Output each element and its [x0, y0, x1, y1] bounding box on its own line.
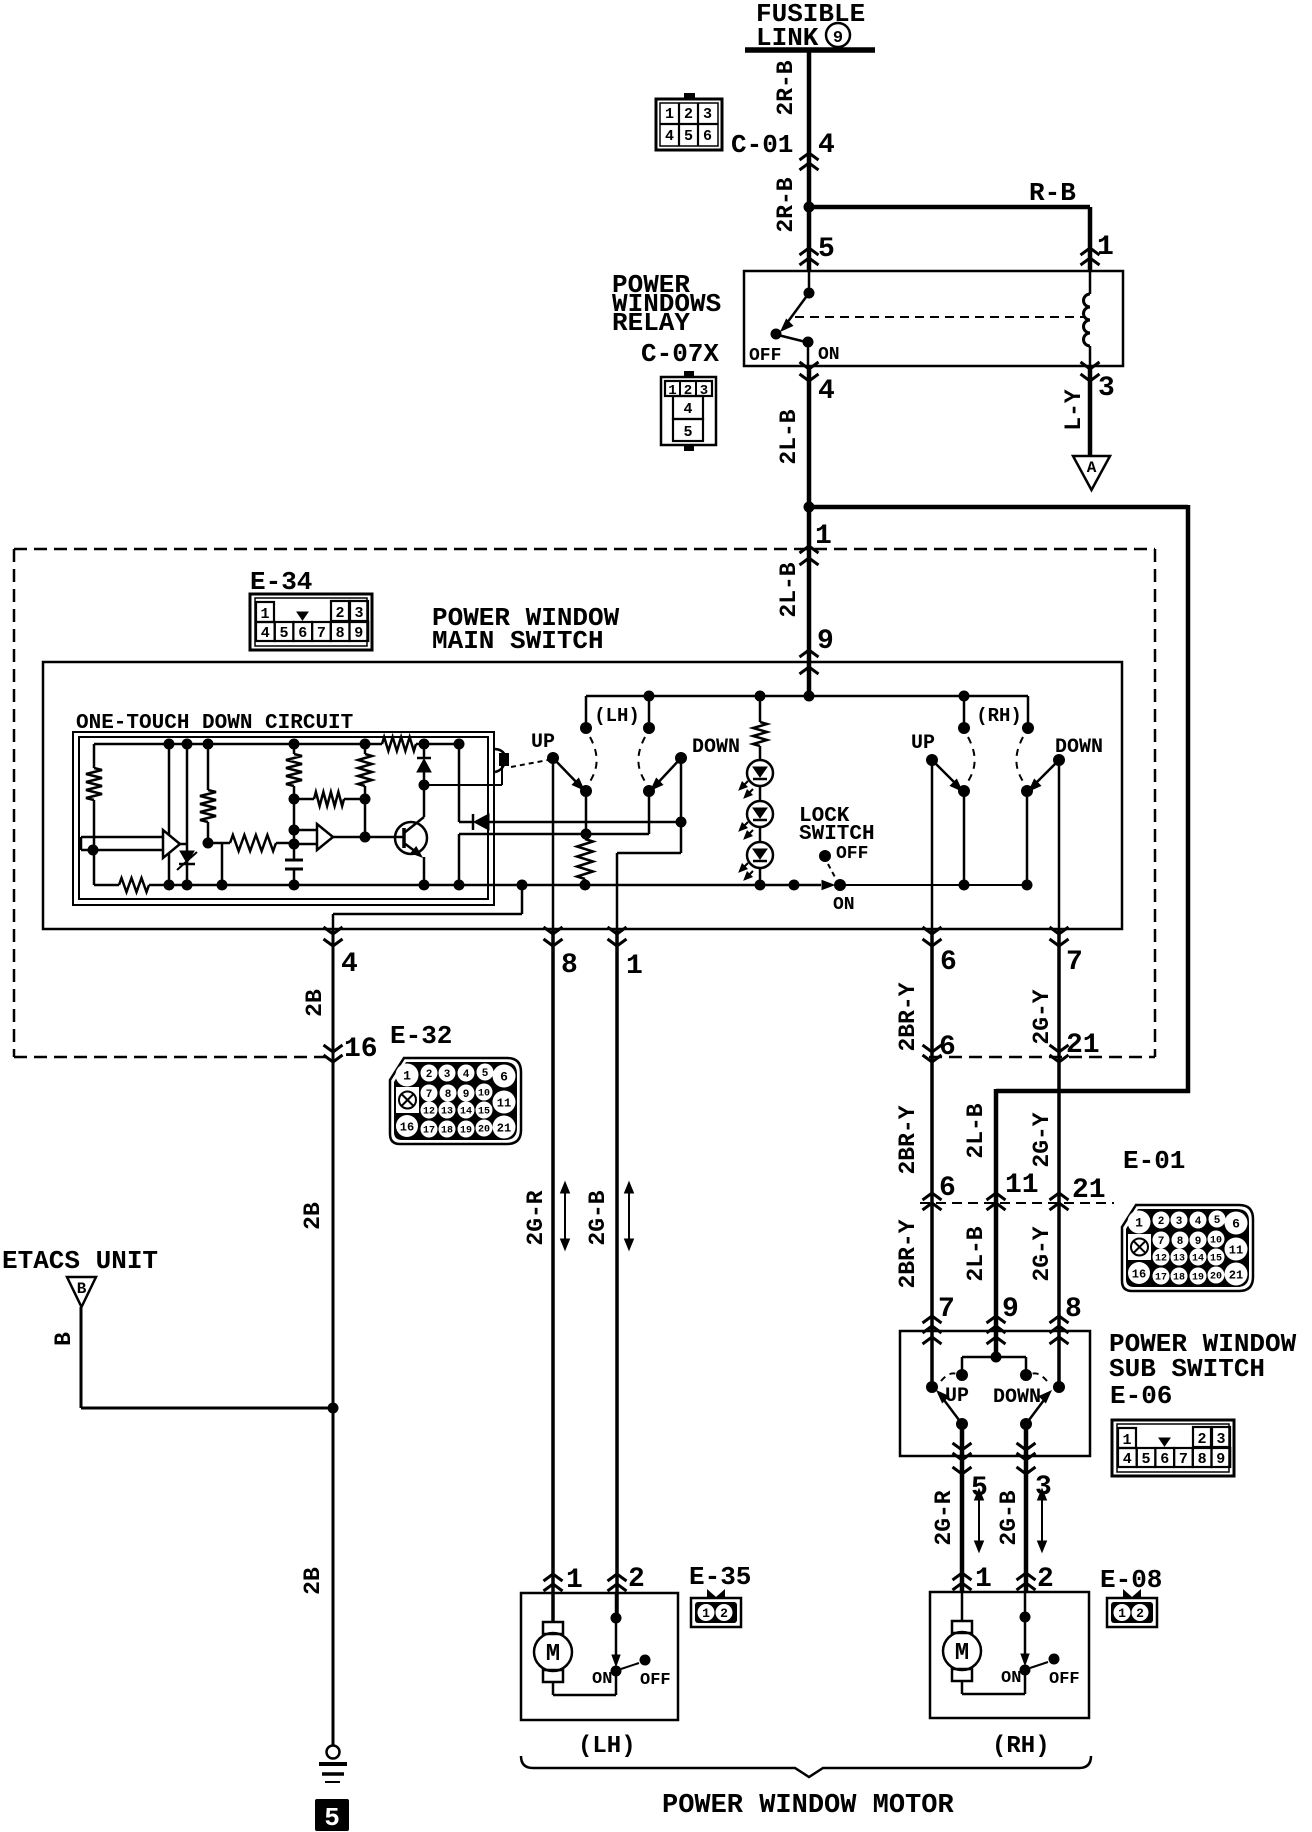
LED chain resistor: [753, 722, 767, 746]
svg-text:5: 5: [279, 625, 288, 642]
svg-text:DOWN: DOWN: [692, 736, 740, 759]
motor RH M symbol: [952, 1621, 972, 1633]
svg-text:1: 1: [1122, 1432, 1131, 1449]
capacitor: [293, 844, 296, 860]
svg-text:5: 5: [1141, 1451, 1150, 1468]
brace power window motor: [521, 1756, 1091, 1777]
pin 1 of RH motor: [953, 1573, 972, 1580]
svg-text:16: 16: [344, 1034, 378, 1065]
svg-text:5: 5: [683, 424, 692, 441]
one-touch down circuit box: [73, 732, 494, 905]
arrow 2G-B RH: [1041, 1499, 1043, 1542]
lock switch arm: [828, 864, 836, 879]
svg-text:1: 1: [975, 1564, 992, 1595]
pin 4 internal ground link: [332, 914, 335, 929]
svg-text:1: 1: [702, 1606, 710, 1621]
svg-text:11: 11: [497, 1096, 511, 1110]
op-amp 1: [163, 830, 180, 858]
zener diode: [180, 851, 194, 863]
svg-text:12: 12: [423, 1107, 435, 1118]
svg-text:11: 11: [1005, 1170, 1039, 1201]
svg-text:17: 17: [1155, 1273, 1167, 1284]
junction node R-B: [804, 202, 815, 213]
svg-text:1: 1: [566, 1565, 583, 1596]
svg-text:A: A: [1087, 459, 1097, 477]
svg-text:19: 19: [1192, 1273, 1204, 1284]
svg-text:UP: UP: [911, 732, 935, 755]
RH DOWN switch: [1053, 754, 1065, 766]
svg-text:4: 4: [683, 401, 692, 418]
svg-text:15: 15: [478, 1107, 490, 1118]
sub switch UP linkage arc: [941, 1373, 961, 1381]
sub switch box: [900, 1331, 1090, 1456]
svg-text:2G-Y: 2G-Y: [1029, 1226, 1055, 1281]
wire 2L-B relay to main switch: [807, 366, 812, 696]
svg-text:13: 13: [441, 1107, 453, 1118]
wire 2G-Y main to sub: [1057, 929, 1061, 1387]
svg-text:21: 21: [1229, 1268, 1243, 1282]
svg-text:2: 2: [1197, 1431, 1206, 1448]
svg-text:7: 7: [1179, 1451, 1188, 1468]
LH DOWN switch: [675, 752, 687, 764]
svg-text:12: 12: [1155, 1254, 1167, 1265]
wire 2R-B from fusible link: [807, 50, 812, 271]
svg-text:21: 21: [1066, 1030, 1100, 1061]
svg-text:9: 9: [1216, 1451, 1225, 1468]
svg-text:2L-B: 2L-B: [776, 409, 802, 464]
svg-text:5: 5: [1214, 1215, 1221, 1227]
wire 2B to ground: [332, 929, 335, 1746]
svg-text:5: 5: [482, 1068, 489, 1080]
svg-text:E-32: E-32: [390, 1021, 452, 1051]
svg-text:E-35: E-35: [689, 1562, 751, 1592]
wire one-touch collector node: [458, 744, 461, 822]
svg-text:2R-B: 2R-B: [773, 177, 799, 232]
RH UP switch: [926, 754, 938, 766]
svg-text:2G-B: 2G-B: [585, 1190, 611, 1245]
wire vertical 2 with zener: [186, 744, 189, 885]
svg-text:4: 4: [261, 625, 270, 642]
resistor 2: [207, 744, 210, 790]
svg-text:MAIN SWITCH: MAIN SWITCH: [432, 626, 604, 656]
svg-text:(LH): (LH): [578, 1733, 636, 1760]
pin 3 of relay output: [1081, 362, 1100, 369]
RH switch top stubs: [963, 696, 966, 727]
motor LH M symbol: [543, 1622, 563, 1634]
svg-text:OFF: OFF: [836, 844, 868, 864]
svg-text:2B: 2B: [300, 1202, 326, 1230]
wire ETACS to ground wire: [80, 1307, 83, 1408]
svg-text:8: 8: [561, 950, 578, 981]
wire L-Y to A: [1088, 366, 1093, 456]
svg-text:2: 2: [1136, 1606, 1144, 1621]
svg-text:2: 2: [1158, 1216, 1165, 1228]
svg-text:6: 6: [939, 1032, 956, 1063]
svg-text:2: 2: [1037, 1564, 1054, 1595]
wire sub switch to RH motor 1: [960, 1424, 965, 1593]
svg-text:8: 8: [445, 1089, 452, 1101]
svg-text:6: 6: [1232, 1217, 1240, 1232]
motor LH internal wiring: [552, 1593, 555, 1622]
svg-text:1: 1: [1118, 1606, 1126, 1621]
svg-text:9: 9: [817, 626, 834, 657]
ground reference 5 marker: [315, 1799, 349, 1831]
svg-text:7: 7: [426, 1089, 433, 1101]
svg-text:5: 5: [818, 234, 835, 265]
resistor 6 vertical: [358, 754, 372, 786]
pin 4 of relay output: [800, 362, 819, 369]
wire LH UP common to pin 8: [552, 758, 555, 929]
wire sub switch to RH motor 2: [1024, 1424, 1029, 1593]
pin 7 of main switch: [1050, 927, 1069, 934]
pin 2 of RH motor: [1017, 1573, 1036, 1580]
svg-text:ON: ON: [818, 345, 840, 365]
ground symbol: [327, 1746, 340, 1759]
svg-text:16: 16: [400, 1120, 414, 1134]
wire LH DOWN contact down: [648, 791, 651, 834]
wire to bottom rail: [221, 843, 224, 885]
svg-text:16: 16: [1132, 1267, 1146, 1281]
svg-text:3: 3: [1216, 1431, 1225, 1448]
svg-text:2R-B: 2R-B: [773, 60, 799, 115]
svg-text:14: 14: [460, 1107, 472, 1118]
svg-text:2G-B: 2G-B: [996, 1490, 1022, 1545]
resistor 3 horizontal: [208, 842, 230, 845]
svg-text:2L-B: 2L-B: [963, 1103, 989, 1158]
sub switch UP arm: [941, 1396, 962, 1424]
svg-text:ON: ON: [592, 1670, 612, 1689]
svg-text:(LH): (LH): [594, 705, 640, 727]
pin 4 of main switch: [324, 927, 343, 934]
svg-text:1: 1: [665, 106, 674, 123]
svg-text:9: 9: [833, 29, 843, 48]
svg-text:SUB SWITCH: SUB SWITCH: [1109, 1354, 1265, 1384]
svg-text:6: 6: [1160, 1451, 1169, 1468]
svg-text:2BR-Y: 2BR-Y: [895, 1105, 921, 1174]
svg-text:2: 2: [628, 1564, 645, 1595]
svg-text:DOWN: DOWN: [993, 1386, 1041, 1409]
svg-text:2: 2: [426, 1069, 433, 1081]
svg-text:M: M: [955, 1640, 969, 1667]
svg-text:7: 7: [1066, 947, 1083, 978]
pin 3 of sub switch: [1017, 1443, 1036, 1450]
svg-text:1: 1: [1135, 1216, 1143, 1231]
svg-text:8: 8: [336, 625, 345, 642]
svg-text:2BR-Y: 2BR-Y: [895, 982, 921, 1051]
LH switch top stubs: [585, 696, 588, 727]
wire main switch pin 8 to LH motor: [551, 929, 555, 1622]
svg-text:3: 3: [1176, 1216, 1183, 1228]
svg-text:E-06: E-06: [1110, 1381, 1172, 1411]
arrow 2G-R RH: [978, 1499, 980, 1542]
sub switch DOWN linkage arc: [1027, 1373, 1047, 1381]
svg-text:POWER WINDOW MOTOR: POWER WINDOW MOTOR: [662, 1791, 954, 1821]
main switch assembly dashed boundary: [14, 548, 1155, 551]
pin 1 of LH motor: [544, 1574, 563, 1581]
pin 1 of main switch: [608, 927, 627, 934]
wire R-B branch: [809, 205, 1090, 210]
svg-text:C-07X: C-07X: [641, 339, 719, 369]
LH UP switch: [547, 752, 559, 764]
power window motor LH box: [521, 1593, 678, 1720]
LH DOWN linkage arc: [638, 737, 646, 783]
relay switch contact: [808, 271, 811, 293]
sub switch feed node: [991, 1352, 1002, 1363]
svg-text:C-01: C-01: [731, 130, 793, 160]
diode 2 to pin1 line: [459, 821, 473, 824]
svg-text:5: 5: [324, 1803, 340, 1832]
svg-text:13: 13: [1173, 1254, 1185, 1265]
wire main switch pin 1 to LH motor: [615, 929, 619, 1618]
transistor Q1: [395, 822, 427, 854]
svg-text:(RH): (RH): [992, 1733, 1050, 1760]
diode 1: [423, 744, 426, 758]
motor LH breaker switch: [615, 1593, 618, 1664]
wire RH DOWN contact down: [1026, 791, 1029, 885]
svg-text:ETACS UNIT: ETACS UNIT: [2, 1246, 158, 1276]
svg-text:18: 18: [1173, 1273, 1185, 1284]
arrow 2G-B LH: [628, 1192, 630, 1240]
connector E-01 dashed line: [920, 1202, 1114, 1204]
svg-text:9: 9: [463, 1089, 470, 1101]
connector E-01 icon: [1122, 1205, 1253, 1291]
svg-text:M: M: [546, 1641, 560, 1668]
svg-text:OFF: OFF: [1049, 1670, 1080, 1689]
svg-text:6: 6: [940, 947, 957, 978]
pin 2 of LH motor: [608, 1574, 627, 1581]
svg-text:L-Y: L-Y: [1061, 389, 1087, 431]
svg-text:5: 5: [684, 128, 693, 145]
svg-text:UP: UP: [531, 731, 555, 754]
motor RH breaker switch: [1024, 1592, 1027, 1663]
LED chain wire: [759, 696, 762, 722]
svg-text:SWITCH: SWITCH: [799, 823, 875, 846]
svg-text:9: 9: [354, 625, 363, 642]
junction node 2L-B: [804, 502, 815, 513]
wire RH UP common to pin 6: [931, 760, 934, 929]
svg-text:20: 20: [478, 1125, 490, 1136]
wire RH UP contact down: [963, 791, 966, 885]
LED 3: [759, 827, 762, 842]
svg-text:17: 17: [423, 1126, 435, 1137]
svg-text:2G-R: 2G-R: [931, 1490, 957, 1545]
svg-text:7: 7: [317, 625, 326, 642]
svg-text:2: 2: [720, 1606, 728, 1621]
pin 8 of main switch: [544, 927, 563, 934]
svg-text:E-08: E-08: [1100, 1565, 1162, 1595]
resistor 5 horizontal: [314, 792, 344, 806]
svg-text:3: 3: [703, 106, 712, 123]
rail junction dot: [789, 880, 800, 891]
svg-text:2B: 2B: [302, 989, 328, 1017]
svg-text:1: 1: [403, 1069, 411, 1084]
LED 1: [747, 760, 773, 786]
line to LH down node: [459, 833, 649, 836]
lock switch OFF: [819, 850, 831, 862]
svg-text:20: 20: [1210, 1272, 1222, 1283]
resistor LH: [577, 839, 593, 879]
dashed link to UP switch: [511, 760, 548, 767]
power window main switch box: [43, 662, 1122, 929]
LED 2: [759, 786, 762, 801]
svg-text:B: B: [51, 1332, 77, 1346]
wire LH UP contact down: [585, 791, 588, 834]
connector E-08 icon: [1123, 1589, 1132, 1597]
fusible link bus bar: [745, 47, 875, 53]
svg-text:2L-B: 2L-B: [963, 1226, 989, 1281]
RH UP linkage arc: [967, 737, 975, 783]
svg-text:ON: ON: [833, 895, 855, 915]
connector C-07X icon: [661, 377, 716, 445]
svg-text:6: 6: [500, 1070, 508, 1085]
connector E-32 icon: [390, 1058, 521, 1144]
svg-text:4: 4: [341, 949, 358, 980]
wire vertical 1: [168, 744, 171, 885]
svg-text:10: 10: [1210, 1236, 1222, 1247]
lock switch ON node: [822, 881, 834, 890]
wire RH DOWN common to pin 7: [1058, 760, 1061, 929]
one-touch top rail: [94, 743, 382, 746]
svg-text:2: 2: [335, 605, 344, 622]
resistor left: [93, 744, 96, 768]
svg-text:21: 21: [1072, 1175, 1106, 1206]
svg-text:6: 6: [298, 625, 307, 642]
pin 5 of sub switch: [953, 1443, 972, 1450]
sub switch DOWN contact: [1053, 1381, 1065, 1393]
power window motor RH box: [930, 1592, 1089, 1718]
svg-text:(RH): (RH): [976, 705, 1022, 727]
svg-text:4: 4: [463, 1069, 470, 1081]
op-amp 2: [317, 824, 333, 850]
svg-text:10: 10: [478, 1089, 490, 1100]
wire LH DOWN common to pin 1: [680, 758, 683, 822]
LH UP linkage arc: [589, 737, 597, 783]
svg-text:RELAY: RELAY: [612, 308, 690, 338]
svg-text:2G-Y: 2G-Y: [1029, 1112, 1055, 1167]
svg-text:E-01: E-01: [1123, 1146, 1185, 1176]
svg-text:8: 8: [1065, 1294, 1082, 1325]
svg-text:2L-B: 2L-B: [776, 562, 802, 617]
svg-text:2BR-Y: 2BR-Y: [895, 1219, 921, 1288]
svg-text:ON: ON: [1001, 1669, 1021, 1688]
connector E-35 icon: [707, 1589, 716, 1597]
resistor 4 vertical: [286, 754, 302, 786]
svg-text:15: 15: [1210, 1254, 1222, 1265]
svg-text:8: 8: [1198, 1451, 1207, 1468]
svg-text:2B: 2B: [300, 1567, 326, 1595]
svg-text:R-B: R-B: [1029, 178, 1076, 208]
svg-text:9: 9: [1002, 1294, 1019, 1325]
connector C-01 icon: [656, 99, 722, 150]
svg-text:1: 1: [626, 951, 643, 982]
svg-text:4: 4: [818, 130, 835, 161]
triangle connector A: [1073, 456, 1110, 490]
main switch ground rail right: [840, 884, 1027, 886]
relay linkage dashed line: [795, 316, 1085, 318]
svg-text:OFF: OFF: [640, 1671, 671, 1690]
svg-text:2G-R: 2G-R: [523, 1190, 549, 1245]
svg-text:4: 4: [1123, 1451, 1132, 1468]
svg-text:4: 4: [818, 376, 835, 407]
svg-text:UP: UP: [945, 1385, 969, 1408]
ETACS triangle B: [67, 1277, 96, 1307]
RH DOWN linkage arc: [1016, 737, 1024, 783]
one-touch output to terminal: [424, 784, 502, 786]
svg-text:11: 11: [1229, 1243, 1243, 1257]
motor RH internal wiring: [961, 1592, 964, 1621]
svg-text:19: 19: [460, 1126, 472, 1137]
connector E-34 icon: [250, 594, 372, 650]
svg-text:1: 1: [260, 606, 269, 623]
svg-text:3: 3: [354, 605, 363, 622]
relay coil: [1089, 271, 1092, 294]
one-touch bottom rail: [94, 884, 119, 887]
svg-text:7: 7: [938, 1294, 955, 1325]
svg-text:2G-Y: 2G-Y: [1029, 989, 1055, 1044]
svg-text:7: 7: [1158, 1236, 1165, 1248]
sub switch DOWN arm: [1026, 1396, 1047, 1424]
svg-text:21: 21: [497, 1121, 511, 1135]
svg-text:B: B: [77, 1280, 87, 1298]
svg-text:6: 6: [703, 128, 712, 145]
svg-text:2: 2: [684, 106, 693, 123]
connector E-06 icon: [1112, 1420, 1234, 1476]
svg-text:8: 8: [1177, 1236, 1184, 1248]
wire 2BR-Y main to sub: [930, 929, 934, 1387]
relay C-07X box: [744, 271, 1123, 366]
main switch top bus: [586, 695, 1028, 698]
svg-text:14: 14: [1192, 1254, 1204, 1265]
sub switch UP contact: [926, 1381, 938, 1393]
svg-text:4: 4: [665, 128, 674, 145]
svg-text:4: 4: [1195, 1216, 1202, 1228]
svg-text:18: 18: [441, 1126, 453, 1137]
svg-text:3: 3: [1098, 373, 1115, 404]
arrow 2G-R LH: [564, 1192, 566, 1240]
svg-text:9: 9: [1195, 1236, 1202, 1248]
svg-text:3: 3: [444, 1069, 451, 1081]
svg-text:OFF: OFF: [749, 346, 781, 366]
svg-text:1: 1: [815, 521, 832, 552]
pin 6 of main switch: [923, 927, 942, 934]
wire 2L-B to sub switch: [809, 505, 1188, 510]
svg-text:1: 1: [1097, 232, 1114, 263]
